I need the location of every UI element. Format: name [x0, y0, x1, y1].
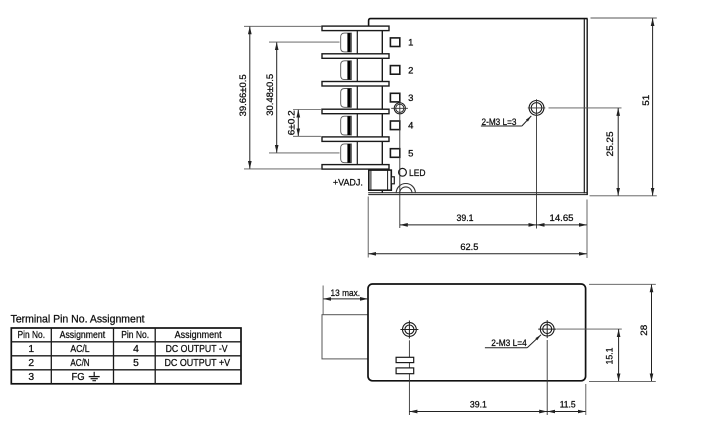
terminal screw 4 (D-shape head) — [341, 116, 352, 135]
dimension 13 max. line — [323, 298, 368, 300]
extension line right case edge down — [585, 384, 587, 415]
leader underline for 2-M3 L=3 — [481, 125, 522, 127]
dimension 6±0.2 line — [297, 110, 299, 137]
terminal screw 2 (D-shape head) — [341, 61, 352, 80]
svg-text:30.48±0.5: 30.48±0.5 — [265, 74, 276, 116]
terminal block body vertical line — [356, 26, 358, 169]
pin 5 marker square — [390, 149, 399, 158]
svg-text:5: 5 — [408, 148, 413, 159]
pin 1 marker square — [390, 38, 399, 47]
terminal barrier fin 4 — [322, 109, 389, 114]
bottom view: left mounting screw inner circle — [405, 325, 414, 334]
svg-text:DC OUTPUT +V: DC OUTPUT +V — [164, 358, 230, 369]
svg-text:Assignment: Assignment — [60, 330, 106, 341]
rear mounting screw hole outer circle — [529, 101, 544, 116]
bottom-right extension line — [590, 195, 657, 197]
terminal screw 5 slot (filled) — [347, 144, 350, 163]
left screw crosshair vertical — [408, 321, 410, 339]
vent slot 1 — [396, 357, 414, 362]
svg-text:+VADJ.: +VADJ. — [333, 177, 363, 188]
extension line bottom for 6±0.2 — [293, 135, 321, 137]
dimension 14.65 line — [537, 224, 588, 226]
extension line top for 6±0.2 — [293, 109, 321, 111]
table column line — [50, 328, 52, 384]
VADJ potentiometer outer body — [369, 170, 392, 190]
svg-text:Assignment: Assignment — [175, 330, 222, 341]
LED indicator circle — [399, 168, 407, 176]
left screw crosshair horizontal — [400, 329, 418, 331]
svg-text:AC/N: AC/N — [70, 358, 89, 369]
dimension 39.66 line — [249, 26, 251, 169]
front screw crosshair horizontal — [391, 107, 408, 109]
svg-text:LED: LED — [409, 168, 426, 179]
extension line from rear screw to 25.25 dim — [549, 107, 622, 109]
svg-text:2: 2 — [408, 65, 413, 76]
rear mounting screw hole inner circle — [531, 103, 542, 114]
terminal barrier fin 6 — [322, 165, 389, 170]
svg-text:3: 3 — [28, 372, 34, 383]
bottom view bottom-right extension line — [589, 380, 656, 382]
svg-text:11.5: 11.5 — [560, 400, 576, 411]
terminal barrier fin 2 — [322, 54, 389, 59]
terminal screw 1 slot (filled) — [347, 33, 350, 52]
svg-text:39.66±0.5: 39.66±0.5 — [238, 74, 249, 116]
svg-text:DC OUTPUT -V: DC OUTPUT -V — [166, 344, 228, 355]
case side view: bottom edge line 1 — [368, 192, 587, 194]
case side view: top edge with rounded front corner — [369, 19, 588, 28]
svg-text:4: 4 — [133, 344, 139, 355]
svg-text:28: 28 — [639, 325, 650, 336]
right screw crosshair horizontal — [538, 328, 556, 330]
vent slot 2 — [396, 368, 414, 374]
dimension 28 line — [651, 284, 653, 381]
svg-text:13 max.: 13 max. — [331, 288, 361, 299]
leader arrow to right screw — [527, 335, 541, 348]
svg-text:5: 5 — [133, 358, 139, 369]
table column line — [154, 328, 156, 384]
svg-text:1: 1 — [28, 344, 34, 355]
svg-text:14.65: 14.65 — [550, 213, 574, 224]
svg-text:25.25: 25.25 — [605, 132, 616, 157]
extension line from right screw to 15.1 dim — [557, 328, 622, 330]
case side view: bottom edge line 2 — [368, 194, 588, 196]
case side view: rear edge outer line — [586, 19, 588, 195]
svg-text:1: 1 — [408, 38, 413, 49]
svg-text:6±0.2: 6±0.2 — [286, 110, 297, 135]
dimension 11.5 line — [547, 411, 586, 413]
bottom view: left mounting screw outer circle — [403, 323, 417, 337]
left screw centerline extension down — [408, 340, 410, 415]
earth ground symbol — [93, 372, 95, 377]
dimension 15.1 line — [618, 329, 620, 381]
right screw centerline extension down — [546, 340, 548, 415]
svg-text:15.1: 15.1 — [604, 348, 615, 365]
bottom mounting screw head arc inner — [400, 187, 412, 193]
front screw centerline vertical (extension to dim) — [399, 100, 401, 228]
terminal screw 5 (D-shape head) — [341, 144, 352, 163]
rear screw centerline vertical (extension to dim) — [536, 99, 538, 228]
bottom view: right mounting screw inner circle — [543, 325, 552, 334]
extension line bottom for 30.48 — [269, 152, 340, 154]
terminal barrier fin 3 — [322, 82, 389, 87]
dimension 39.1 (side view) line — [400, 224, 537, 226]
extension line left for 13 max. — [322, 286, 324, 315]
terminal screw 2 slot (filled) — [347, 61, 350, 80]
svg-text:AC/L: AC/L — [70, 344, 90, 355]
top-right extension line — [591, 17, 657, 19]
svg-text:Pin No.: Pin No. — [121, 330, 149, 341]
dimension 39.1 (bottom view) line — [409, 411, 547, 413]
front mounting screw hole inner circle — [396, 104, 404, 112]
terminal screw 3 (D-shape head) — [341, 89, 352, 108]
svg-text:Terminal Pin No. Assignment: Terminal Pin No. Assignment — [11, 313, 145, 325]
dimension 25.25 line — [617, 108, 619, 196]
table row line — [11, 355, 241, 357]
bottom view top-right extension line — [589, 283, 656, 285]
bottom view: terminal block protrusion — [322, 315, 368, 359]
svg-text:39.1: 39.1 — [457, 213, 474, 224]
extension line left for 62.5 — [367, 197, 369, 258]
pin 3 marker square — [390, 93, 399, 102]
terminal barrier fin 5 — [322, 137, 389, 142]
case side view: rear edge inner line — [583, 19, 585, 193]
pin 4 marker square — [390, 121, 399, 130]
svg-text:Pin No.: Pin No. — [18, 330, 46, 341]
table row line — [11, 369, 241, 371]
terminal screw 4 slot (filled) — [347, 116, 350, 135]
svg-text:51: 51 — [641, 95, 652, 106]
table outer border — [11, 328, 241, 384]
svg-text:2: 2 — [28, 358, 34, 369]
extension line right for 14.65 and 62.5 — [586, 200, 588, 259]
extension line top for 39.66 — [244, 25, 322, 27]
rear screw crosshair horizontal — [528, 107, 546, 109]
VADJ potentiometer shaft tab — [391, 177, 394, 184]
right screw crosshair vertical — [546, 320, 548, 338]
dimension 30.48 line — [276, 42, 278, 153]
terminal barrier fin 1 — [322, 26, 389, 31]
bottom mounting screw head arc outer — [396, 184, 415, 194]
VADJ potentiometer inner right line — [387, 170, 389, 190]
VADJ potentiometer inner left line — [370, 170, 372, 190]
dimension 51 line — [652, 18, 654, 196]
extension line bottom for 39.66 — [244, 168, 322, 170]
bottom view: right mounting screw outer circle — [540, 322, 554, 336]
front mounting screw hole outer circle — [394, 103, 405, 114]
dimension 62.5 line — [368, 253, 587, 255]
svg-text:4: 4 — [408, 121, 413, 132]
svg-text:62.5: 62.5 — [460, 242, 478, 253]
terminal screw 1 (D-shape head) — [341, 33, 352, 52]
leader underline for 2-M3 L=4 — [485, 347, 527, 349]
case side view: front panel vertical line — [381, 28, 383, 194]
bottom view: case outline — [368, 284, 586, 381]
table row line — [11, 341, 241, 343]
extension line top for 30.48 — [269, 41, 340, 43]
terminal screw 3 slot (filled) — [347, 89, 350, 108]
svg-text:3: 3 — [408, 93, 413, 104]
svg-text:39.1: 39.1 — [470, 400, 487, 411]
svg-text:FG: FG — [72, 372, 85, 383]
pin 2 marker square — [390, 66, 399, 75]
table column line — [113, 328, 115, 384]
leader arrow to rear screw — [522, 116, 531, 126]
